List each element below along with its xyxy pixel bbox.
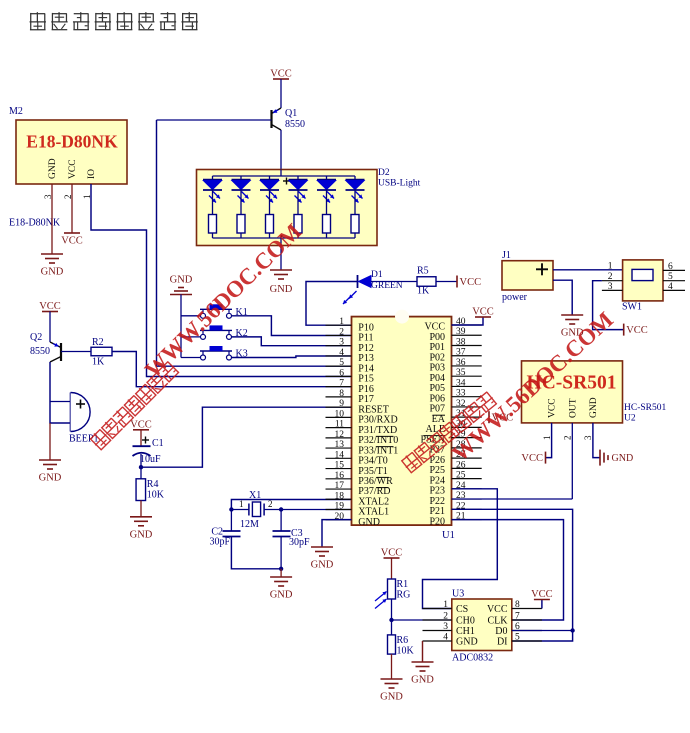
wire U1 pin23 P22 to U2 OUT [452, 498, 573, 500]
svg-text:M2: M2 [9, 106, 23, 117]
svg-text:GND: GND [270, 590, 293, 601]
power VCC at M2 pin2 (inverted) [61, 233, 83, 247]
svg-text:2: 2 [339, 327, 344, 337]
svg-text:38: 38 [456, 337, 466, 347]
svg-text:VCC: VCC [472, 307, 494, 318]
svg-text:3: 3 [339, 338, 344, 348]
svg-text:OUT: OUT [569, 398, 579, 418]
svg-text:32: 32 [456, 399, 466, 409]
svg-text:HC-SR501: HC-SR501 [624, 403, 666, 413]
pushbutton K3 [181, 346, 248, 360]
wire VCC to R1 [391, 558, 393, 579]
svg-text:GND: GND [358, 517, 380, 528]
wire SW1 pin2 to VCC [593, 281, 624, 330]
U3 pins and names [423, 600, 542, 648]
svg-text:R1: R1 [397, 579, 409, 590]
svg-text:VCC: VCC [68, 159, 78, 179]
LED array box D2 USB-Light [197, 168, 421, 246]
wire BEEP1 top stub [50, 401, 71, 403]
svg-text:GREEN: GREEN [371, 281, 403, 291]
svg-text:10uF: 10uF [140, 454, 161, 465]
wire Q1 base to U1 pin5 [157, 120, 352, 366]
svg-text:10K: 10K [397, 646, 415, 657]
power VCC above Q1 [270, 69, 292, 80]
svg-text:D1: D1 [371, 270, 383, 280]
wire X1 left to C2 [230, 510, 232, 532]
svg-text:CS: CS [456, 604, 468, 615]
svg-text:30pF: 30pF [289, 537, 310, 548]
wire R1 to junction [391, 599, 393, 620]
wire U1 pin20 to ground [322, 520, 352, 547]
svg-text:X1: X1 [249, 490, 261, 501]
wire D0 to junction [512, 630, 573, 632]
resistor R2 1K [91, 337, 112, 368]
connector J1 power [502, 250, 553, 303]
wire K1 to U1 pin2 [232, 316, 352, 336]
svg-text:5: 5 [668, 272, 673, 282]
wire C1 to junction [140, 454, 142, 467]
svg-text:1: 1 [608, 262, 613, 272]
pushbutton K1 [181, 304, 248, 318]
svg-text:J1: J1 [502, 250, 511, 261]
svg-text:U2: U2 [624, 414, 636, 424]
svg-text:CH0: CH0 [456, 616, 475, 627]
wire K3 to U1 pin4 [232, 356, 352, 358]
svg-text:GND: GND [589, 397, 599, 418]
svg-text:VCC: VCC [531, 589, 553, 600]
wire VCC to Q1 emitter [280, 79, 282, 108]
svg-text:VCC: VCC [487, 604, 508, 615]
wire Q2 collector to BEEP1 [50, 362, 71, 423]
svg-text:10K: 10K [147, 490, 165, 501]
svg-text:VCC: VCC [626, 325, 648, 336]
svg-text:ADC0832: ADC0832 [452, 653, 493, 664]
ground GND under crystal [270, 577, 293, 601]
node DI/D0 junction [570, 628, 574, 632]
wire K2 to U1 pin3 [232, 337, 352, 346]
LED 5 with resistor in D2 [317, 176, 336, 238]
svg-text:VCC: VCC [460, 277, 482, 288]
svg-text:RG: RG [397, 590, 411, 601]
transistor Q2 8550 [30, 332, 61, 362]
svg-text:4: 4 [339, 348, 344, 358]
svg-text:E18-D80NK: E18-D80NK [9, 218, 61, 229]
wire R4 to ground [140, 501, 142, 517]
svg-text:35: 35 [456, 368, 466, 378]
svg-text:C1: C1 [152, 438, 164, 449]
svg-text:12: 12 [335, 430, 345, 440]
LED 6 with resistor in D2 [346, 176, 365, 238]
wire U1 pin19 XTAL1 to X1 [281, 509, 351, 511]
svg-text:30pF: 30pF [209, 537, 230, 548]
ground GND under R6 [380, 679, 403, 703]
wire Q1 collector to D2 [280, 130, 282, 170]
svg-text:6: 6 [668, 262, 673, 272]
wire C2 to gnd rail [231, 537, 281, 569]
svg-text:D0: D0 [495, 626, 507, 637]
svg-text:34: 34 [456, 378, 466, 388]
svg-text:power: power [502, 292, 528, 303]
svg-text:E18-D80NK: E18-D80NK [26, 132, 118, 152]
PIR module U2 HC-SR501 [522, 361, 667, 440]
node R1/R6/CH0 junction [389, 618, 393, 622]
title text 智能台灯总原理图 [30, 12, 198, 30]
svg-text:GND: GND [612, 453, 634, 464]
wire VCC to Q2 emitter [49, 312, 51, 343]
svg-text:VCC: VCC [270, 69, 292, 80]
svg-text:Q2: Q2 [30, 332, 42, 343]
LED 4 with resistor in D2 [289, 176, 308, 238]
svg-text:36: 36 [456, 358, 466, 368]
svg-text:GND: GND [456, 637, 478, 648]
svg-text:2: 2 [563, 436, 573, 441]
svg-text:8: 8 [339, 389, 344, 399]
resistor R6 10K [388, 635, 415, 657]
capacitor C3 30pF [273, 528, 311, 548]
svg-text:17: 17 [335, 481, 345, 491]
transistor Q1 8550 [272, 108, 306, 130]
wire junction to R4 [140, 467, 142, 479]
svg-text:USB-Light: USB-Light [378, 179, 421, 189]
wire D2 cathode rail [213, 235, 356, 246]
svg-text:GND: GND [380, 692, 403, 703]
svg-text:4: 4 [668, 282, 673, 292]
svg-text:VCC: VCC [548, 398, 558, 418]
wire rail to ground [280, 569, 282, 577]
svg-text:GND: GND [39, 473, 62, 484]
wire M2 pin3 to ground [51, 184, 53, 254]
svg-text:GND: GND [411, 675, 434, 686]
svg-text:VCC: VCC [130, 419, 152, 430]
wire Q2 base to R2 [61, 351, 91, 353]
wire D2 anode rail and + mark [213, 170, 356, 185]
buzzer BEEP1 [69, 393, 98, 445]
svg-text:U3: U3 [452, 589, 464, 600]
wire BEEP1 to ground [49, 423, 51, 460]
LED 2 with resistor in D2 [232, 176, 251, 238]
wire keys common [180, 295, 182, 358]
svg-text:CH1: CH1 [456, 626, 475, 637]
svg-text:5: 5 [515, 633, 520, 643]
ground GND right of U2 pin3 [600, 450, 633, 466]
svg-text:12M: 12M [240, 519, 259, 530]
svg-text:GND: GND [170, 275, 193, 286]
ground GND under D2 [270, 270, 293, 295]
resistor R4 10K [136, 479, 165, 501]
svg-text:2: 2 [268, 499, 273, 509]
wire U3 pin8 to VCC [541, 600, 543, 609]
svg-text:GND: GND [270, 284, 293, 295]
node X1 right junction [279, 507, 283, 511]
wire U1 pin18 XTAL2 to X1 [231, 500, 351, 510]
node crystal gnd junction [279, 567, 283, 571]
wire Q1 base [157, 119, 272, 121]
wire M2 pin2 to VCC [71, 184, 73, 233]
svg-text:14: 14 [335, 450, 345, 460]
svg-text:VCC: VCC [381, 548, 403, 559]
wire U1 pin40 to VCC [452, 317, 484, 325]
svg-text:R5: R5 [417, 266, 429, 277]
svg-text:3: 3 [583, 435, 593, 440]
svg-text:39: 39 [456, 327, 466, 337]
wire U1 pin22 P21 to U3 DI/D0 [452, 509, 573, 641]
wire D1 to R5 [371, 281, 417, 283]
wire VCC to C1 [140, 430, 142, 446]
svg-text:8550: 8550 [30, 346, 50, 357]
power VCC at U1 pin31 EA [489, 411, 513, 424]
wire U2 pin1 to VCC [546, 423, 552, 458]
wire D2 to ground [280, 246, 282, 271]
svg-text:10: 10 [335, 409, 345, 419]
wire U1 pin21 P20 to U3 CLK [452, 520, 564, 620]
svg-text:VCC: VCC [61, 236, 83, 247]
svg-text:6: 6 [339, 368, 344, 378]
svg-text:1K: 1K [92, 357, 105, 368]
ground GND under U1 pin20 [311, 547, 334, 571]
wire R2 to U1 pin7 [112, 352, 352, 387]
node C1/R4 junction [139, 465, 143, 469]
wire U1 pin1 to D1 [306, 282, 358, 326]
U1 left pins 1-20 with names [326, 317, 399, 528]
svg-text:7: 7 [339, 379, 344, 389]
svg-text:GND: GND [41, 267, 64, 278]
LED D1 GREEN [343, 270, 403, 304]
svg-text:18: 18 [335, 491, 345, 501]
svg-text:19: 19 [335, 502, 345, 512]
svg-text:8550: 8550 [285, 119, 305, 130]
power VCC at U1 pin40 [472, 307, 494, 318]
svg-text:1K: 1K [417, 286, 430, 297]
wire M2 pin1 IO to U1 pin6 [91, 184, 352, 377]
switch SW1 [622, 260, 663, 313]
MCU U1 (AT89C51) body [352, 310, 455, 541]
svg-text:D2: D2 [378, 168, 390, 178]
svg-text:3: 3 [608, 282, 613, 292]
ground GND under J1 [561, 315, 584, 339]
LED 3 with resistor in D2 [260, 176, 279, 238]
wire J1 to ground [553, 280, 572, 315]
LED 1 with resistor in D2 [203, 176, 222, 238]
svg-text:16: 16 [335, 471, 345, 481]
ground GND above keys (flipped) [170, 275, 193, 295]
power VCC above R1 [381, 548, 403, 559]
svg-text:2: 2 [443, 612, 448, 622]
svg-text:7: 7 [515, 612, 520, 622]
svg-text:9: 9 [339, 399, 344, 409]
wire U1 pin24 P23 to U3 CS [423, 489, 498, 609]
svg-text:R4: R4 [147, 479, 159, 490]
wire junction to U3 CH0 [392, 619, 452, 621]
svg-text:GND: GND [48, 158, 58, 179]
svg-text:VCC: VCC [521, 453, 543, 464]
crystal X1 12M [231, 490, 281, 530]
svg-text:1: 1 [542, 436, 552, 441]
power VCC above Q2 [39, 301, 61, 312]
svg-text:13: 13 [335, 440, 345, 450]
svg-text:IO: IO [87, 169, 97, 179]
photoresistor R1 RG [375, 579, 410, 609]
svg-text:1: 1 [443, 600, 448, 610]
wire U2 pin2 OUT down [571, 423, 573, 499]
watermark 2 www.56doc.com [400, 307, 618, 474]
wire C3 to gnd rail [280, 537, 282, 569]
ground GND under U3 pin4 [411, 662, 434, 686]
power VCC above C1 [130, 419, 152, 430]
wire J1 to SW1 pin1 [553, 269, 623, 271]
svg-text:37: 37 [456, 348, 466, 358]
power VCC below SW1 [624, 324, 648, 337]
svg-text:R2: R2 [92, 337, 104, 348]
pushbutton K2 [181, 325, 248, 339]
node X1 left junction [229, 507, 233, 511]
power VCC at U3 pin8 [531, 589, 553, 600]
svg-text:5: 5 [339, 358, 344, 368]
svg-text:1: 1 [239, 499, 244, 509]
wire R6 to ground [391, 654, 393, 679]
svg-text:P20: P20 [429, 516, 445, 527]
svg-text:Q1: Q1 [285, 108, 297, 119]
svg-text:4: 4 [443, 633, 448, 643]
SW1 pins [602, 262, 685, 292]
svg-text:8: 8 [515, 600, 520, 610]
svg-text:R6: R6 [397, 635, 409, 646]
svg-text:1: 1 [339, 317, 344, 327]
svg-text:33: 33 [456, 389, 466, 399]
wire junction to U1 pin9 RESET [141, 407, 352, 467]
svg-text:DI: DI [497, 637, 508, 648]
svg-text:U1: U1 [442, 530, 455, 541]
wire U2 pin3 to ground [593, 423, 600, 458]
U1 right pins 40-21 with names [421, 317, 482, 527]
ground GND under BEEP1 [39, 460, 62, 484]
power VCC at U2 pin1 [521, 452, 545, 465]
capacitor C1 10uF [133, 437, 164, 466]
svg-text:VCC: VCC [39, 301, 61, 312]
capacitor C2 30pF [209, 527, 240, 548]
wire junction to R6 [391, 620, 393, 635]
svg-text:11: 11 [335, 420, 344, 430]
svg-text:3: 3 [443, 622, 448, 632]
resistor R5 1K [417, 266, 436, 297]
power VCC right of R5 [457, 276, 481, 289]
svg-text:15: 15 [335, 461, 345, 471]
wire X1 right to C3 [280, 510, 282, 532]
ADC U3 ADC0832 body [452, 589, 512, 664]
svg-text:25: 25 [456, 471, 466, 481]
svg-text:GND: GND [130, 529, 153, 540]
wire R5 to VCC [436, 281, 457, 283]
watermark 1 www.56doc.com [89, 218, 307, 450]
svg-text:CLK: CLK [488, 616, 509, 627]
wire U3 pin4 to ground [422, 641, 424, 662]
ground GND under R4 [130, 517, 153, 541]
sensor module M2 E18-D80NK [9, 106, 127, 229]
svg-text:SW1: SW1 [622, 302, 642, 313]
svg-text:GND: GND [311, 560, 334, 571]
ground GND under M2 pin3 [41, 254, 64, 278]
svg-text:2: 2 [608, 272, 613, 282]
